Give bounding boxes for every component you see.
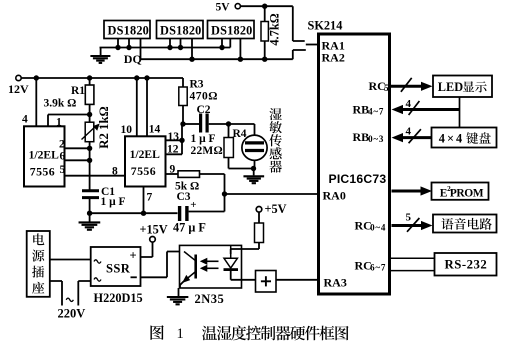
wire RB0-3 bus <box>392 126 432 144</box>
caption figure 1 <box>150 325 183 342</box>
pin label RC6-7 <box>355 259 387 273</box>
label 5kohm <box>175 181 199 193</box>
wires RC6-7 to RS-232 <box>391 258 435 270</box>
label PIC16C73 <box>329 172 387 186</box>
wire DQ bus <box>141 58 293 60</box>
junction pin13 <box>179 138 184 143</box>
junction C2/R4/sensor <box>226 121 231 126</box>
wire pin 9 <box>166 173 179 175</box>
wire 220V right <box>78 281 90 306</box>
svg-text:4: 4 <box>406 126 412 138</box>
svg-text:5: 5 <box>406 212 412 224</box>
optocoupler 2N35 <box>180 245 242 288</box>
svg-text:1 μ F: 1 μ F <box>191 133 216 145</box>
block RS-232 <box>435 253 497 276</box>
svg-text:4×4: 4×4 <box>439 132 464 146</box>
wire to EEPROM <box>392 186 433 195</box>
svg-text:+5V: +5V <box>265 202 287 216</box>
pin label 9 <box>170 164 176 176</box>
svg-text:1: 1 <box>177 326 184 342</box>
wire SSR- to opto <box>141 252 185 278</box>
wire 220V left <box>50 281 62 306</box>
opto light arrows <box>200 258 219 272</box>
block SSR <box>91 247 141 286</box>
IC 7556 U1 (1/2EL) <box>24 126 65 186</box>
junction sensor ground <box>251 166 256 171</box>
label R1 <box>71 85 85 97</box>
svg-text:7556: 7556 <box>30 165 55 179</box>
svg-text:7: 7 <box>147 192 153 204</box>
wire RC0-4 to voice <box>392 212 433 232</box>
svg-text:1 μ F: 1 μ F <box>101 196 126 208</box>
junction RA0 node <box>222 191 227 196</box>
block LED display <box>433 76 492 98</box>
power terminal 12V <box>8 75 29 96</box>
junction DS1820 pins <box>115 45 224 50</box>
label R3 <box>190 79 204 91</box>
svg-text:4.7kΩ: 4.7kΩ <box>268 13 282 45</box>
power terminal 5V <box>216 2 241 14</box>
svg-text:4: 4 <box>406 98 412 110</box>
junction R3/C2 <box>180 121 185 126</box>
caption title (CJK) <box>202 326 349 341</box>
pin label 1 <box>56 117 62 129</box>
wire node R3/C2 to pins <box>181 124 183 154</box>
label H220D15 <box>94 291 143 305</box>
pin label RA3 <box>324 276 347 290</box>
IC DS1820 #3 <box>208 21 255 60</box>
pin label 10 <box>121 124 133 136</box>
svg-text:22MΩ: 22MΩ <box>191 145 223 157</box>
wire RC5 to LED display <box>391 78 433 92</box>
opto phototransistor <box>180 252 196 289</box>
svg-text:4: 4 <box>22 114 28 126</box>
junction DQ pins <box>189 57 267 62</box>
pin label 5 <box>60 164 66 176</box>
svg-text:0~3: 0~3 <box>368 134 384 144</box>
pin label 14 <box>149 124 161 136</box>
wire pin 14 <box>146 78 148 136</box>
capacitor C2 <box>183 114 229 133</box>
svg-text:+: + <box>130 249 137 263</box>
wire pin 6 <box>65 159 90 161</box>
block 4x4 keypad <box>432 128 497 148</box>
svg-text:13: 13 <box>168 131 180 143</box>
svg-text:7556: 7556 <box>131 164 156 178</box>
label DQ <box>124 52 142 66</box>
svg-text:2: 2 <box>59 139 65 151</box>
wire pin 7 <box>143 187 145 214</box>
wire 12V rail <box>21 77 183 79</box>
svg-text:R3: R3 <box>190 79 204 91</box>
svg-text:DQ: DQ <box>124 52 142 66</box>
wire pin segment RA1/RA2 <box>306 44 319 46</box>
pin label 4 <box>22 114 28 126</box>
svg-text:DS1820: DS1820 <box>160 24 202 38</box>
svg-text:RB: RB <box>353 130 370 144</box>
junction R1 bottom <box>87 112 92 117</box>
svg-text:DS1820: DS1820 <box>211 24 253 38</box>
svg-text:6~7: 6~7 <box>370 263 386 273</box>
svg-text:1/2EL: 1/2EL <box>29 149 60 162</box>
power terminal +5V <box>256 202 286 216</box>
svg-text:5: 5 <box>384 83 389 93</box>
humidity sensor <box>229 124 268 169</box>
svg-text:R1: R1 <box>71 85 85 97</box>
svg-text:47 μ F: 47 μ F <box>173 221 206 235</box>
svg-text:+: + <box>190 199 196 211</box>
label 22Mohm <box>191 145 223 157</box>
pin label RA0 <box>323 189 346 203</box>
junction C1 bottom <box>87 211 92 216</box>
label 4.7kohm <box>268 13 282 45</box>
wire pin 4 <box>35 78 37 126</box>
label 470ohm <box>190 91 218 103</box>
label R4 <box>233 128 247 140</box>
wire C1-C3 node <box>90 212 178 214</box>
label C2 <box>197 104 211 116</box>
svg-text:+15V: +15V <box>140 223 168 237</box>
resistor 5k <box>178 171 225 194</box>
label 3.9kohm <box>44 98 77 110</box>
pin label RB4-7 <box>353 103 385 117</box>
potentiometer R2 <box>82 115 100 190</box>
svg-text:RS-232: RS-232 <box>445 258 488 272</box>
label C3 plus <box>190 199 196 211</box>
svg-text:PROM: PROM <box>450 188 484 200</box>
wire pin 1 <box>48 115 90 127</box>
svg-text:DS1820: DS1820 <box>108 24 150 38</box>
wire SSR+ to 15V <box>141 242 153 257</box>
resistor R1 <box>85 78 94 115</box>
label C1 value <box>101 196 126 208</box>
ground (opto) <box>167 288 189 304</box>
wire DQ branch to chip <box>293 50 306 59</box>
IC DS1820 #1 <box>104 21 150 60</box>
pin label 13 <box>168 131 180 143</box>
block power socket (CJK) <box>27 231 50 297</box>
svg-text:R4: R4 <box>233 128 247 140</box>
svg-text:PIC16C73: PIC16C73 <box>329 172 387 186</box>
svg-text:12V: 12V <box>8 82 29 96</box>
svg-text:1/2EL: 1/2EL <box>130 148 161 161</box>
wire ground bus <box>100 47 231 49</box>
label C3 value 47uF <box>173 221 206 235</box>
svg-text:R2 1kΩ: R2 1kΩ <box>97 106 111 149</box>
svg-text:8: 8 <box>112 166 118 178</box>
ground (under C1) <box>79 213 101 230</box>
label R2 1kohm <box>97 106 111 149</box>
pin label 7 <box>147 192 153 204</box>
IC DS1820 #2 <box>157 21 204 60</box>
pin label 2 <box>59 139 65 151</box>
junction pin6 <box>87 158 92 163</box>
svg-text:220V: 220V <box>58 307 86 321</box>
svg-text:RA2: RA2 <box>322 51 345 65</box>
pin label 6 <box>60 151 66 163</box>
svg-text:2N35: 2N35 <box>195 292 225 306</box>
capacitor C1 <box>82 191 99 213</box>
wire 5V rail <box>240 5 292 7</box>
power terminal +15V <box>140 223 168 243</box>
svg-text:LED: LED <box>438 80 463 94</box>
label SK214 <box>308 19 343 33</box>
wire to RA3 <box>276 279 319 281</box>
opto LED <box>224 245 256 279</box>
label C2 value 1uF <box>191 133 216 145</box>
junction pin7/C3 <box>141 211 146 216</box>
resistor R+5V <box>231 212 264 254</box>
wire RB4-7 bus <box>392 97 460 128</box>
junction 5V/R-pullup <box>262 3 267 8</box>
resistor 4.7k pull-up <box>261 6 268 59</box>
svg-text:SSR: SSR <box>106 262 131 276</box>
svg-text:10: 10 <box>121 124 133 136</box>
label 2N35 <box>195 292 225 306</box>
wire pin5 to pin8 <box>65 175 126 177</box>
svg-text:SK214: SK214 <box>308 19 343 33</box>
svg-text:5: 5 <box>60 164 66 176</box>
pin label 8 <box>112 166 118 178</box>
junction pin2/R2 <box>87 146 92 151</box>
wire pin 10 <box>136 78 138 136</box>
pin label RC5 <box>369 79 390 93</box>
pin label RC0-4 <box>355 219 387 233</box>
svg-text:RA3: RA3 <box>324 276 347 290</box>
label C3 <box>177 191 191 203</box>
pin label RA2 <box>322 51 345 65</box>
capacitor C3 <box>180 194 225 221</box>
svg-text:0~4: 0~4 <box>370 223 386 233</box>
block plus (driver) <box>256 271 277 293</box>
svg-text:12: 12 <box>167 144 179 156</box>
label 220V ac <box>58 298 86 320</box>
svg-text:5V: 5V <box>216 2 231 14</box>
pin stub 12 <box>166 153 183 155</box>
wire 5V branch to chip <box>293 6 305 41</box>
label hum-sensor (CJK) <box>269 108 282 173</box>
pin stub 13 <box>166 139 183 141</box>
pin label RA1 <box>322 39 345 53</box>
pin label 12 <box>167 144 179 156</box>
wire pin 2 <box>65 147 90 149</box>
svg-text:C3: C3 <box>177 191 191 203</box>
svg-text:RA0: RA0 <box>323 189 346 203</box>
resistor R3 <box>179 78 187 124</box>
svg-text:470Ω: 470Ω <box>190 91 218 103</box>
block voice circuit <box>433 215 497 233</box>
svg-text:3.9k Ω: 3.9k Ω <box>44 98 77 110</box>
junction 12V rail <box>34 75 150 80</box>
block E2PROM <box>432 183 489 200</box>
svg-text:RB: RB <box>353 103 370 117</box>
IC PIC16C73 (SK214) <box>319 34 390 294</box>
ground (sensor) <box>243 169 264 184</box>
svg-text:4~7: 4~7 <box>368 107 384 117</box>
svg-text:H220D15: H220D15 <box>94 291 143 305</box>
svg-text:14: 14 <box>149 124 161 136</box>
pin label RB0-3 <box>353 130 385 144</box>
IC 7556 U2 (1/2EL) <box>125 136 166 186</box>
wire RA0 <box>225 193 320 195</box>
label C1 <box>101 186 115 198</box>
ground (DS1820 bus) <box>90 48 110 63</box>
resistor R4 <box>224 124 255 169</box>
wire socket to SSR <box>50 259 91 261</box>
